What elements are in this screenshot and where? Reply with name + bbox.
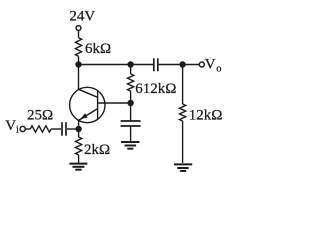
svg-text:V: V [5, 118, 16, 134]
svg-text:i: i [16, 125, 19, 136]
svg-text:6kΩ: 6kΩ [85, 41, 111, 57]
svg-text:V: V [205, 57, 216, 73]
svg-text:o: o [216, 64, 221, 75]
svg-text:2kΩ: 2kΩ [84, 142, 110, 158]
svg-text:12kΩ: 12kΩ [189, 107, 223, 123]
svg-text:612kΩ: 612kΩ [135, 81, 176, 97]
svg-text:24V: 24V [69, 8, 95, 24]
svg-text:25Ω: 25Ω [27, 107, 53, 123]
